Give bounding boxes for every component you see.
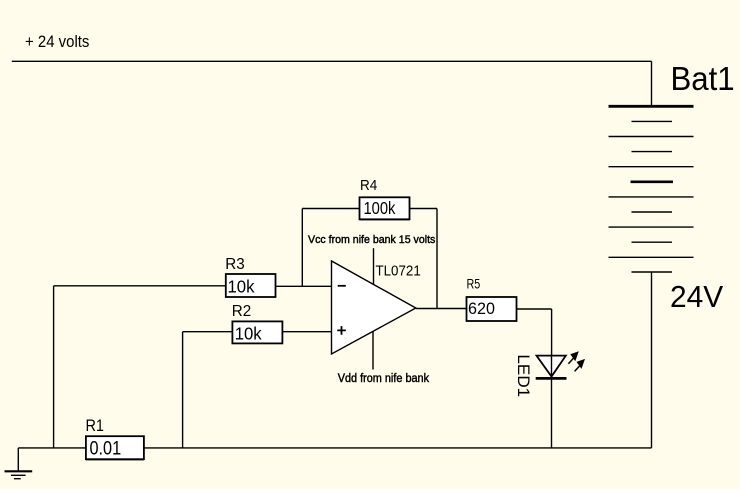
wire non-inverting input (282, 331, 331, 333)
op-amp U1 body (332, 261, 416, 354)
ground bar 2 (11, 474, 26, 476)
op-amp U1 plus pin mark (337, 326, 346, 335)
svg-text:Vcc from nife bank 15 volts: Vcc from nife bank 15 volts (308, 234, 436, 246)
resistor R3 body (226, 274, 276, 297)
wire inverting input (276, 285, 332, 287)
wire +24V rail top (12, 60, 652, 62)
wire R2 left lead (183, 331, 233, 333)
wire ground to R1 (18, 447, 86, 449)
LED LED1 body (537, 356, 566, 377)
LED LED1 cathode bar (536, 377, 567, 380)
wire R5 right lead (517, 308, 552, 310)
svg-text:R1: R1 (86, 417, 104, 435)
resistor R4 body (360, 197, 410, 219)
wire R3 sense drop (53, 286, 55, 448)
wire Vdd supply stub (372, 332, 374, 370)
wire feedback left vertical (301, 209, 303, 287)
svg-text:R2: R2 (232, 302, 251, 319)
wire battery negative down right side (651, 272, 653, 448)
ground bar 3 (14, 478, 21, 480)
svg-text:Bat1: Bat1 (671, 60, 735, 97)
resistor R1 body bottom edge (86, 459, 144, 461)
svg-text:R5: R5 (467, 276, 481, 291)
ground stem (17, 448, 19, 471)
svg-text:Vdd from nife bank: Vdd from nife bank (338, 371, 430, 385)
wire R4 right lead (410, 208, 437, 210)
wire R2 sense drop (182, 332, 184, 448)
resistor R2 body (232, 321, 282, 343)
svg-text:R3: R3 (225, 256, 244, 273)
wire R3 left lead (54, 285, 226, 287)
wire op-amp output (416, 308, 467, 310)
resistor R1 body (86, 436, 144, 459)
svg-text:TL0721: TL0721 (376, 263, 421, 280)
op-amp U1 minus pin mark (338, 285, 346, 287)
svg-text:R4: R4 (360, 177, 377, 194)
svg-text:10k: 10k (235, 323, 262, 344)
wire through LED (551, 356, 553, 448)
svg-text:0.01: 0.01 (90, 437, 122, 459)
resistor R5 body (467, 297, 517, 321)
wire LED anode drop (551, 309, 553, 356)
wire battery positive drop (651, 61, 653, 105)
svg-text:LED1: LED1 (514, 354, 533, 397)
svg-text:24V: 24V (670, 279, 724, 314)
svg-text:10k: 10k (228, 276, 255, 297)
wire R4 left lead (302, 208, 359, 210)
svg-text:620: 620 (468, 299, 495, 318)
ground bar 1 (5, 470, 33, 472)
svg-text:100k: 100k (364, 199, 397, 219)
LED LED1 emission arrows (568, 351, 585, 371)
svg-text:+ 24 volts: + 24 volts (25, 33, 89, 51)
wire R1 right to battery negative (144, 447, 652, 449)
wire feedback right vertical (436, 209, 438, 309)
resistor R4 body bottom edge (360, 219, 410, 221)
wire Vcc supply stub (373, 248, 375, 285)
battery Bat1 plates (609, 106, 694, 272)
